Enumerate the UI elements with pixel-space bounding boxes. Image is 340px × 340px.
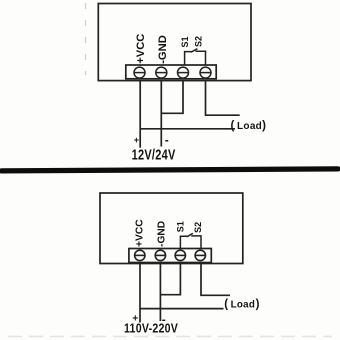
wire GND down to - (top) (160, 81, 162, 147)
svg-text:-GND: -GND (157, 221, 168, 247)
terminal block TB1 (top) (126, 65, 216, 79)
wire load return from VCC line (top) (140, 128, 235, 130)
screw terminal 1 (+VCC) (134, 67, 145, 78)
wire S2 down and right to load (bottom) (201, 263, 230, 296)
svg-text:S1: S1 (180, 36, 190, 47)
wire S1 down and left to GND wire (bottom) (160, 263, 180, 295)
svg-text:+VCC: +VCC (135, 34, 147, 64)
svg-text:S2: S2 (194, 36, 204, 47)
svg-text:+: + (134, 135, 139, 145)
wire S2 down and right to load (top) (206, 81, 240, 116)
wire S1 down and left to GND wire (top) (161, 81, 183, 114)
scan artifact ghost line (85, 3, 87, 75)
terminal block TB2 (bottom) (129, 249, 211, 263)
wire VCC down to + (top) (139, 81, 141, 148)
svg-text:110V-220V: 110V-220V (124, 320, 178, 335)
wire VCC down to + (bottom) (139, 263, 141, 323)
separator bar between diagrams (2, 169, 339, 171)
svg-text:+VCC: +VCC (135, 219, 146, 247)
screw terminal 6 (-GND bottom) (155, 250, 165, 260)
screw terminal 4 (S2) (200, 67, 211, 78)
wire load return from VCC line (bottom) (140, 308, 224, 310)
screw terminal 2 (-GND) (156, 67, 167, 78)
controller module outline (bottom diagram) (100, 193, 243, 264)
relay contact K2 (bottom, between S1 and S2) (180, 233, 201, 248)
relay contact K1 (top, between S1 and S2) (185, 49, 206, 65)
svg-text:(Load): (Load) (224, 298, 259, 310)
svg-text:(Load): (Load) (231, 120, 267, 132)
svg-text:12V/24V: 12V/24V (132, 146, 176, 163)
controller module outline (top diagram) (98, 4, 251, 81)
screw terminal 7 (S1 bottom) (175, 250, 185, 260)
screw terminal 8 (S2 bottom) (195, 250, 205, 260)
screw terminal 3 (S1) (178, 67, 189, 78)
wire GND down to - (bottom) (159, 263, 161, 322)
svg-text:-GND: -GND (157, 35, 169, 64)
scan artifact streak at bottom (8, 336, 332, 338)
svg-text:S1: S1 (176, 221, 186, 232)
screw terminal 5 (+VCC bottom) (135, 250, 145, 260)
svg-text:-: - (165, 133, 169, 147)
svg-text:S2: S2 (193, 222, 203, 233)
